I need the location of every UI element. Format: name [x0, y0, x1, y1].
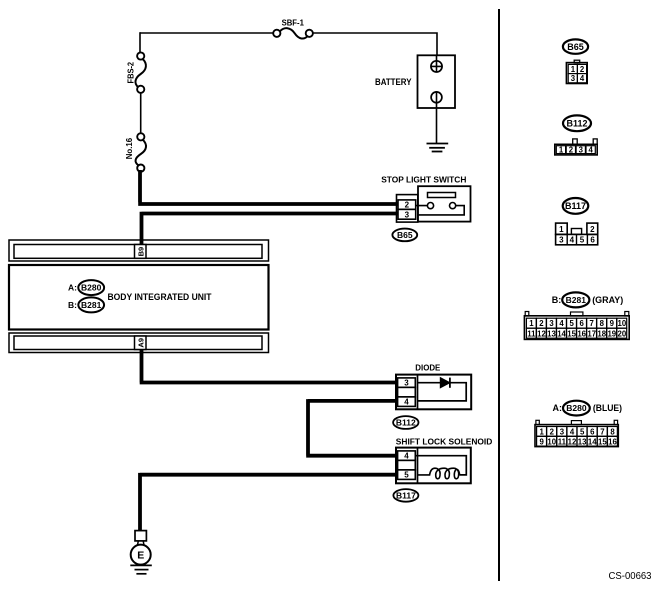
separator line [498, 9, 500, 581]
pin 16 [577, 328, 587, 338]
svg-text:10: 10 [618, 319, 627, 328]
pin 3 [568, 74, 577, 83]
svg-text:1: 1 [571, 65, 576, 74]
svg-text:8: 8 [610, 427, 615, 436]
wire stop light switch pin 3 to B9 [142, 212, 399, 246]
svg-text:B117: B117 [565, 201, 586, 211]
svg-text:6: 6 [579, 319, 584, 328]
battery minus terminal [431, 92, 442, 103]
pin 11 [526, 328, 536, 338]
battery plus terminal [431, 55, 442, 72]
svg-text:FBS-2: FBS-2 [126, 62, 136, 84]
legend connector B281 gray [524, 292, 629, 339]
pin 3 [557, 427, 567, 437]
svg-text:4: 4 [559, 319, 564, 328]
pin 10 [617, 318, 627, 328]
fuse FBS-2 [126, 52, 146, 93]
legend connector B280 blue [535, 401, 622, 447]
svg-text:3: 3 [560, 427, 565, 436]
svg-text:DIODE: DIODE [415, 363, 440, 373]
svg-text:5: 5 [569, 319, 574, 328]
pin 1 [526, 318, 536, 328]
svg-text:4: 4 [589, 146, 594, 155]
svg-text:3: 3 [549, 319, 554, 328]
svg-text:3: 3 [571, 74, 576, 83]
pin 3 [547, 318, 557, 328]
svg-text:15: 15 [567, 329, 576, 338]
key tab [571, 229, 581, 235]
svg-text:13: 13 [547, 329, 556, 338]
svg-text:4: 4 [580, 74, 585, 83]
pin 20 [617, 328, 627, 338]
node B9 [135, 245, 147, 259]
wire SBF-1 to battery [313, 32, 437, 55]
node A9 [135, 336, 147, 350]
svg-text:5: 5 [404, 471, 409, 480]
pin 1 [568, 64, 577, 73]
svg-text:STOP LIGHT SWITCH: STOP LIGHT SWITCH [381, 174, 466, 184]
svg-text:8: 8 [600, 319, 605, 328]
svg-text:13: 13 [578, 437, 587, 446]
wire No.16 to stop light switch pin 2 [138, 170, 398, 204]
pin 2 [577, 64, 586, 73]
wire diode pin 4 to solenoid pin 4 [306, 399, 397, 456]
wire corner to FBS-2 [139, 32, 141, 52]
legend connector B65 [563, 39, 588, 83]
pin 4 [398, 397, 416, 407]
pin 4 [567, 427, 577, 437]
pin 7 [597, 427, 607, 437]
pin 1 [556, 146, 565, 154]
svg-text:4: 4 [570, 236, 575, 245]
svg-text:A:: A: [553, 403, 563, 413]
svg-text:9: 9 [610, 319, 615, 328]
pin 6 [577, 318, 587, 328]
svg-text:15: 15 [598, 437, 607, 446]
svg-text:3: 3 [405, 210, 410, 219]
svg-text:B112: B112 [396, 418, 416, 428]
pin 12 [567, 436, 577, 446]
pin 2 [536, 318, 546, 328]
svg-text:5: 5 [580, 236, 585, 245]
wire solenoid pin 5 to ground E [140, 473, 398, 531]
svg-text:16: 16 [608, 437, 617, 446]
svg-text:14: 14 [557, 329, 566, 338]
svg-text:5: 5 [580, 427, 585, 436]
svg-text:3: 3 [404, 379, 409, 388]
svg-text:BATTERY: BATTERY [375, 77, 412, 87]
pin 13 [577, 436, 587, 446]
fuse SBF-1 [273, 18, 313, 39]
diode symbol [418, 382, 441, 384]
switch internal wires [416, 206, 464, 215]
pin 5 [567, 318, 577, 328]
svg-text:2: 2 [569, 146, 574, 155]
wire A9 to diode pin 3 [140, 349, 398, 383]
pin 6 [587, 427, 597, 437]
pin 13 [547, 328, 557, 338]
svg-text:20: 20 [618, 329, 627, 338]
pin 9 [607, 318, 617, 328]
unit main box [9, 265, 269, 330]
svg-text:A9: A9 [136, 338, 145, 348]
pin 15 [567, 328, 577, 338]
pin 3 [576, 146, 585, 154]
svg-text:B65: B65 [397, 230, 413, 240]
svg-text:B:: B: [68, 300, 77, 310]
pin row 3-6 [556, 234, 598, 244]
svg-text:11: 11 [558, 437, 567, 446]
svg-text:1: 1 [529, 319, 534, 328]
pin 19 [607, 328, 617, 338]
pin 3 [398, 209, 416, 219]
svg-text:6: 6 [590, 236, 595, 245]
pin blank [398, 387, 416, 397]
pin 10 [547, 436, 557, 446]
svg-text:2: 2 [550, 427, 555, 436]
svg-text:(BLUE): (BLUE) [593, 403, 622, 413]
pin 2 [566, 146, 575, 154]
pin 5 [398, 470, 416, 480]
pin 12 [536, 328, 546, 338]
body integrated unit U1 [9, 240, 269, 353]
svg-text:B:: B: [552, 295, 562, 305]
svg-text:BODY INTEGRATED UNIT: BODY INTEGRATED UNIT [108, 292, 212, 302]
pin 1 [556, 223, 568, 234]
diode D1 [393, 363, 471, 429]
svg-text:3: 3 [559, 236, 564, 245]
svg-text:2: 2 [580, 65, 585, 74]
wire battery feed horizontal left [140, 32, 273, 34]
legend connector B112 [555, 115, 597, 155]
pin 11 [557, 436, 567, 446]
ground E [130, 531, 152, 574]
svg-text:No.16: No.16 [124, 137, 134, 159]
svg-text:B281: B281 [81, 300, 102, 310]
connector label B112 [393, 416, 418, 429]
svg-text:B9: B9 [136, 247, 145, 257]
svg-text:18: 18 [597, 329, 606, 338]
svg-text:2: 2 [590, 225, 595, 234]
pin 4 [557, 318, 567, 328]
svg-text:4: 4 [404, 452, 409, 461]
pin 18 [597, 328, 607, 338]
svg-text:6: 6 [590, 427, 595, 436]
svg-text:2: 2 [405, 201, 410, 210]
svg-text:4: 4 [404, 398, 409, 407]
svg-text:3: 3 [579, 146, 584, 155]
pin 14 [587, 436, 597, 446]
switch plunger [428, 193, 456, 198]
pin 2 [547, 427, 557, 437]
pin 3 [398, 378, 416, 388]
connector strip A9 [9, 333, 269, 353]
svg-text:7: 7 [590, 319, 594, 328]
svg-text:7: 7 [600, 427, 604, 436]
pin 7 [587, 318, 597, 328]
svg-text:B117: B117 [396, 491, 416, 501]
pin 15 [597, 436, 607, 446]
pin 14 [557, 328, 567, 338]
pin 8 [597, 318, 607, 328]
svg-text:2: 2 [539, 319, 544, 328]
connector strip B9 [9, 240, 269, 261]
pin 2 [398, 200, 416, 210]
pin 4 [577, 74, 586, 83]
svg-text:4: 4 [570, 427, 575, 436]
pin 9 [537, 436, 547, 446]
connector shell B65 [397, 195, 418, 223]
pin 4 [586, 146, 595, 154]
connector label B65 [392, 229, 417, 242]
svg-text:B65: B65 [567, 42, 584, 52]
pin 2 [587, 223, 598, 234]
svg-text:17: 17 [587, 329, 596, 338]
svg-text:1: 1 [559, 225, 564, 234]
solenoid coil [418, 468, 460, 479]
pin 17 [587, 328, 597, 338]
solenoid internal wire [415, 456, 466, 475]
fuse No.16 [124, 133, 146, 172]
ground battery [427, 144, 449, 152]
svg-text:9: 9 [539, 437, 544, 446]
svg-text:19: 19 [607, 329, 616, 338]
legend connector B117 [556, 198, 598, 245]
svg-text:SHIFT LOCK SOLENOID: SHIFT LOCK SOLENOID [396, 436, 493, 446]
pin 1 [537, 427, 547, 437]
svg-text:1: 1 [539, 427, 544, 436]
pin 5 [577, 427, 587, 437]
svg-text:12: 12 [537, 329, 546, 338]
pin 16 [607, 436, 617, 446]
svg-text:B112: B112 [566, 119, 587, 129]
svg-text:12: 12 [568, 437, 577, 446]
svg-text:(GRAY): (GRAY) [592, 295, 623, 305]
switch contacts [427, 203, 433, 209]
svg-text:A:: A: [68, 283, 77, 293]
stop light switch SW [381, 174, 470, 241]
svg-text:B280: B280 [566, 403, 587, 413]
svg-text:CS-00663: CS-00663 [609, 571, 652, 582]
pin 4 [398, 451, 416, 461]
svg-text:16: 16 [577, 329, 586, 338]
svg-text:1: 1 [559, 146, 564, 155]
connector label B117 [393, 489, 418, 502]
wire FBS-2 to No.16 [140, 93, 142, 133]
shift lock solenoid L1 [393, 436, 492, 501]
pin 8 [607, 427, 617, 437]
svg-text:SBF-1: SBF-1 [282, 18, 305, 28]
pin blank [398, 460, 416, 470]
svg-text:E: E [137, 549, 144, 561]
battery B1 [375, 55, 455, 143]
svg-text:10: 10 [547, 437, 556, 446]
svg-text:B280: B280 [81, 283, 102, 293]
svg-text:11: 11 [527, 329, 536, 338]
svg-text:14: 14 [588, 437, 597, 446]
svg-text:B281: B281 [566, 295, 587, 305]
